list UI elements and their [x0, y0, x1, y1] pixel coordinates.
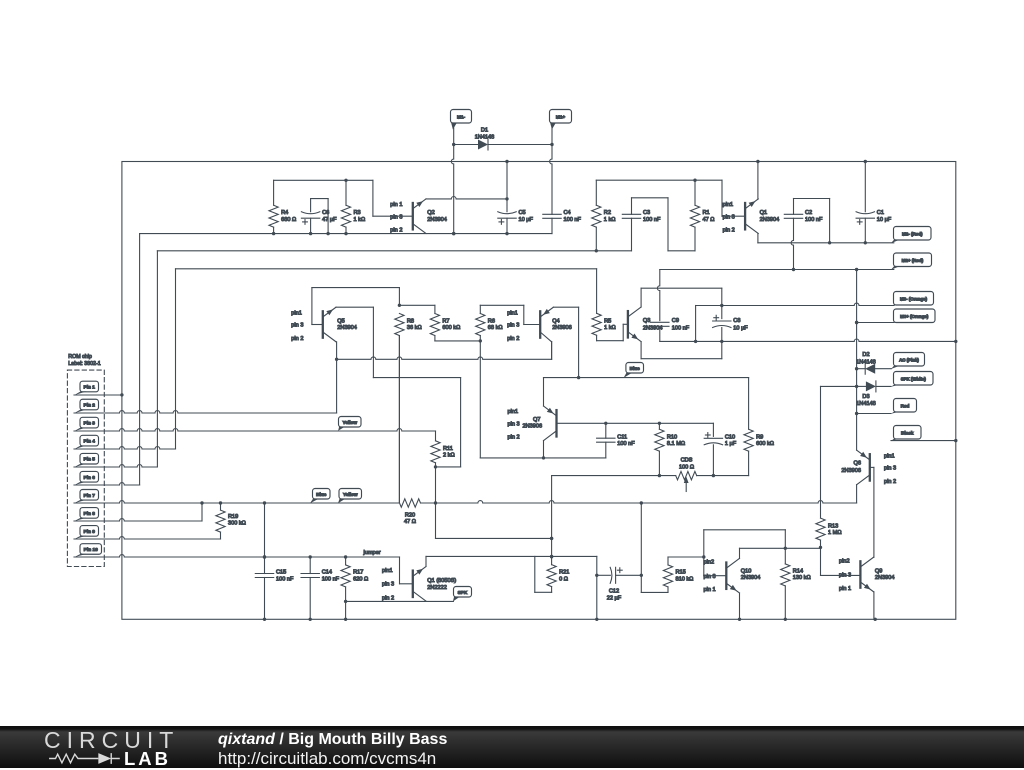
svg-text:SPK: SPK	[458, 590, 468, 595]
resistor R19 300 kohm	[216, 503, 246, 539]
svg-text:Pin 2: Pin 2	[84, 403, 96, 409]
wire Pin 10 jumper row	[74, 555, 400, 557]
capacitor C8 10uF electrolytic	[713, 315, 749, 341]
capacitor C14 100nF	[301, 557, 340, 619]
svg-text:100 nF: 100 nF	[564, 217, 582, 223]
svg-text:D1: D1	[481, 128, 488, 134]
wire Q10 base loop	[703, 530, 705, 576]
terminal flag M3+ (Orange)	[894, 309, 936, 323]
svg-text:R3: R3	[354, 210, 361, 216]
wire long vertical M2+ net down to Q6	[856, 270, 858, 451]
svg-text:600 kΩ: 600 kΩ	[442, 325, 460, 331]
svg-text:M2- (Red): M2- (Red)	[902, 231, 923, 236]
svg-text:pin 3: pin 3	[291, 323, 303, 329]
svg-text:2N3906: 2N3906	[523, 424, 543, 430]
wire Q6 base to Q9 collector	[870, 466, 874, 468]
svg-text:C14: C14	[322, 570, 332, 576]
svg-text:R6: R6	[488, 319, 495, 325]
svg-text:68 kΩ: 68 kΩ	[488, 325, 503, 331]
svg-text:pin 3: pin 3	[382, 582, 394, 588]
svg-text:0 Ω: 0 Ω	[559, 576, 568, 582]
wire bus 3	[175, 269, 177, 449]
svg-text:100 nF: 100 nF	[617, 441, 635, 447]
svg-text:Black: Black	[901, 430, 914, 435]
wire Pin 9 row	[74, 537, 221, 539]
diode D2 1N4148	[856, 352, 891, 374]
wire row 538 to R21	[436, 537, 552, 539]
svg-text:CDS: CDS	[681, 457, 693, 463]
svg-text:Q2: Q2	[427, 210, 434, 216]
svg-text:pin 2: pin 2	[291, 336, 303, 342]
svg-text:R17: R17	[353, 570, 363, 576]
svg-text:130 kΩ: 130 kΩ	[793, 575, 811, 581]
svg-text:C2: C2	[805, 210, 812, 216]
wire Q9 base row	[821, 574, 860, 576]
svg-text:M2+ (Red): M2+ (Red)	[902, 258, 924, 263]
svg-text:pin2: pin2	[704, 560, 715, 566]
svg-text:600 kΩ: 600 kΩ	[756, 441, 774, 447]
svg-text:8.1 MΩ: 8.1 MΩ	[667, 441, 685, 447]
svg-text:R14: R14	[793, 569, 803, 575]
wire M3- row	[696, 303, 894, 305]
transistor Q6 2N3906	[841, 450, 896, 485]
wire Blue row	[544, 377, 749, 379]
photoresistor CDS 100 ohm	[552, 457, 749, 491]
svg-text:R19: R19	[228, 514, 238, 520]
svg-text:10 µF: 10 µF	[519, 217, 534, 223]
logo resistor-diode glyph	[49, 753, 120, 764]
svg-text:Blue: Blue	[316, 492, 327, 497]
svg-text:100 nF: 100 nF	[276, 576, 294, 582]
svg-text:2N3904: 2N3904	[741, 575, 761, 581]
svg-text:C6: C6	[322, 210, 329, 216]
svg-text:C8: C8	[733, 318, 740, 324]
svg-text:Pin 5: Pin 5	[84, 457, 96, 463]
wire Pin 2 row to Q5 emitter	[74, 411, 337, 413]
wire Red row	[857, 413, 891, 415]
svg-text:2 kΩ: 2 kΩ	[443, 453, 455, 459]
wire M2+ row	[660, 269, 894, 271]
resistor R4 680 ohm	[269, 180, 296, 233]
resistor R20 47 ohm in rail	[400, 499, 421, 525]
terminal flag SPK (White)	[894, 372, 934, 386]
terminal flag Yellow (lower)	[339, 489, 362, 500]
svg-text:pin 2: pin 2	[723, 228, 735, 234]
capacitor C2 100nF	[784, 199, 829, 270]
svg-text:10 µF: 10 µF	[877, 217, 892, 223]
terminal flag Pin 8	[80, 508, 99, 519]
wire row Q5-collector to R11 bottom	[373, 377, 460, 379]
svg-text:pin 3: pin 3	[507, 323, 519, 329]
svg-text:Q5: Q5	[337, 319, 344, 325]
ROM chip dashed outline	[67, 370, 104, 566]
transistor Q2 2N3904	[390, 199, 447, 234]
svg-text:pin1: pin1	[291, 310, 302, 316]
svg-text:R8: R8	[407, 319, 414, 325]
svg-text:M1-: M1-	[457, 114, 466, 119]
svg-text:300 kΩ: 300 kΩ	[228, 521, 246, 527]
terminal flag Pin 3	[80, 417, 99, 428]
terminal flag M3- (Orange)	[894, 292, 934, 306]
resistor R15 810 kohm	[641, 555, 705, 592]
terminal flag Pin 2	[80, 399, 99, 410]
wire rail top of R2/R1	[596, 179, 722, 181]
wire Pin 1 row	[74, 394, 122, 396]
svg-text:R5: R5	[604, 319, 611, 325]
terminal flag Pin 7	[80, 490, 99, 501]
resistor R13 1 Mohm	[816, 518, 842, 547]
svg-text:Q1: Q1	[760, 210, 767, 216]
resistor R6 68 kohm	[476, 305, 503, 458]
svg-text:pin 1: pin 1	[704, 587, 716, 593]
svg-text:100 nF: 100 nF	[672, 325, 690, 331]
svg-text:C9: C9	[672, 318, 679, 324]
terminal flag SPK	[454, 587, 472, 598]
wire Q2 emitter rail A	[140, 233, 552, 235]
svg-text:pin 1: pin 1	[390, 202, 402, 208]
svg-text:Q9: Q9	[875, 569, 882, 575]
svg-text:Pin 1: Pin 1	[84, 385, 96, 391]
svg-text:100 Ω: 100 Ω	[679, 464, 694, 470]
capacitor C11 100nF	[597, 423, 636, 458]
svg-text:36 kΩ: 36 kΩ	[407, 325, 422, 331]
diode D3 1N4148	[856, 381, 891, 407]
terminal flag Pin 9	[80, 526, 99, 537]
transistor Q1 2N3904 (top)	[723, 199, 780, 234]
wire rail top of R4/R3	[274, 179, 373, 181]
resistor R17 620 ohm	[341, 557, 368, 619]
wire Q1 base from rail	[721, 180, 723, 216]
wire Pin 8 row	[74, 519, 202, 521]
svg-text:Pin 6: Pin 6	[84, 475, 96, 481]
svg-text:Pin 4: Pin 4	[84, 439, 96, 445]
svg-text:pin 3: pin 3	[704, 574, 716, 580]
wire Pin 7 long rail (left of R20)	[74, 501, 399, 503]
resistor R21 0 ohm	[535, 556, 570, 592]
svg-text:C3: C3	[643, 210, 650, 216]
wire R13 bottom junction	[819, 546, 822, 549]
svg-text:Q7: Q7	[533, 417, 540, 423]
svg-text:R2: R2	[604, 210, 611, 216]
wire rail 341 to right border	[660, 339, 956, 341]
svg-text:R21: R21	[559, 570, 569, 576]
wire Q7 base row	[557, 422, 714, 424]
svg-text:R20: R20	[405, 512, 415, 518]
svg-text:R9: R9	[756, 434, 763, 440]
svg-text:pin1: pin1	[723, 202, 734, 208]
capacitor C1 10uF electrolytic	[856, 162, 892, 243]
svg-text:1N4148: 1N4148	[856, 401, 876, 407]
svg-text:pin 2: pin 2	[390, 228, 402, 234]
svg-text:M1+: M1+	[556, 114, 566, 119]
svg-text:M3- (Orange): M3- (Orange)	[900, 296, 928, 301]
svg-text:pin2: pin2	[839, 558, 850, 564]
wire R6 top row to Q4 base	[480, 304, 524, 306]
resistor R5 1 kohm	[592, 313, 616, 340]
wire Q1 collector row to R21/C12	[426, 555, 597, 557]
svg-text:1 kΩ: 1 kΩ	[354, 217, 366, 223]
svg-text:100 nF: 100 nF	[643, 217, 661, 223]
wire R5 bottom to Q3 base	[597, 340, 624, 342]
wire Q6 emitter to rail503	[856, 485, 858, 503]
resistor R10 8.1 Mohm	[655, 423, 685, 475]
svg-text:10 µF: 10 µF	[733, 325, 748, 331]
capacitor C12 22uF electrolytic	[597, 567, 642, 601]
wire C12/R15 vertical	[640, 503, 642, 592]
svg-text:jumper: jumper	[363, 550, 381, 556]
wire Q9 emitter to bottom border	[873, 592, 875, 620]
terminal flag M1+	[550, 110, 572, 124]
resistor R8 36 kohm	[395, 314, 422, 504]
resistor R9 600 kohm	[744, 378, 774, 476]
wire Q3 collector rail to C8 top	[640, 288, 642, 307]
wire rail B lower (nested rail 2)	[157, 250, 631, 252]
wire Q5 collector over to R11 net	[336, 306, 373, 308]
transistor Q4 2N3906	[507, 307, 572, 342]
svg-text:2N3904: 2N3904	[875, 575, 895, 581]
wire bus 2	[156, 251, 158, 467]
wire Pin 6 row to bus1	[74, 483, 140, 485]
capacitor C10 1uF electrolytic	[704, 423, 737, 475]
terminal flag Pin 5	[80, 453, 99, 464]
svg-text:Red: Red	[901, 403, 910, 408]
wire CDS row down to R21 top	[551, 476, 553, 565]
svg-text:pin 3: pin 3	[884, 466, 896, 472]
wire Q5 base upper rail	[311, 288, 313, 325]
svg-text:Yellow: Yellow	[342, 420, 357, 425]
capacitor C15 100nF	[255, 503, 294, 619]
resistor R7 600 kohm	[430, 305, 460, 341]
svg-text:ROM chip: ROM chip	[68, 354, 92, 360]
capacitor C9 100nF	[651, 270, 690, 342]
svg-text:C10: C10	[725, 434, 735, 440]
svg-text:pin1: pin1	[382, 568, 393, 574]
wire M1- vertical	[451, 128, 453, 234]
svg-text:47 Ω: 47 Ω	[404, 519, 416, 525]
svg-text:Yellow: Yellow	[343, 492, 358, 497]
terminal flag M2- (Red)	[894, 227, 932, 241]
wire Pin 7 long rail (right of R20)	[421, 501, 857, 503]
svg-text:620 Ω: 620 Ω	[353, 576, 368, 582]
capacitor C4 100nF	[543, 210, 582, 233]
svg-text:1 kΩ: 1 kΩ	[604, 325, 616, 331]
svg-text:Label: 3802-1: Label: 3802-1	[68, 361, 100, 367]
svg-text:47 µF: 47 µF	[322, 217, 337, 223]
wire Pin 5 row to bus2	[74, 465, 157, 467]
wire Q5 emitter down to Pin2 row	[336, 342, 338, 413]
resistor R11 2 kohm	[431, 431, 455, 467]
svg-text:Q6: Q6	[854, 461, 861, 467]
capacitor C5 10uF electrolytic	[498, 162, 534, 234]
svg-text:pin1: pin1	[508, 409, 519, 415]
svg-text:810 kΩ: 810 kΩ	[676, 576, 694, 582]
svg-text:Blue: Blue	[630, 366, 641, 371]
transistor Q3 2N3904	[628, 307, 663, 342]
svg-text:AC (Pink): AC (Pink)	[899, 357, 919, 362]
terminal flag Blue (lower)	[313, 489, 331, 500]
transistor Q5 2N3904	[291, 307, 357, 342]
svg-text:680 Ω: 680 Ω	[281, 217, 296, 223]
wire Q1 collector to top border	[757, 162, 759, 200]
svg-text:D3: D3	[862, 394, 869, 400]
svg-text:22 µF: 22 µF	[607, 596, 622, 602]
svg-text:Pin 9: Pin 9	[84, 529, 96, 535]
svg-text:R7: R7	[442, 319, 449, 325]
svg-text:C5: C5	[519, 210, 526, 216]
svg-text:1 MΩ: 1 MΩ	[828, 530, 842, 536]
svg-text:1N4148: 1N4148	[856, 359, 876, 365]
svg-text:Q4: Q4	[552, 319, 559, 325]
svg-text:R1: R1	[703, 210, 710, 216]
terminal flag Pin 1	[80, 381, 99, 392]
svg-text:Q10: Q10	[741, 569, 752, 575]
wire R8/R7 top row	[399, 304, 435, 306]
svg-text:C1: C1	[877, 210, 884, 216]
junction dots on borders	[505, 160, 508, 163]
wire Q1 emitter rail to M2- flag	[757, 234, 759, 243]
svg-text:Pin 10: Pin 10	[84, 547, 98, 553]
resistor R1 47 ohm	[690, 180, 714, 251]
svg-text:100 nF: 100 nF	[805, 217, 823, 223]
wire R8 vertical down to R20	[398, 336, 400, 504]
svg-text:pin 2: pin 2	[382, 595, 394, 601]
wire Pin 4 row to bus3	[74, 447, 176, 449]
svg-text:pin1: pin1	[884, 453, 895, 459]
svg-text:1 kΩ: 1 kΩ	[604, 217, 616, 223]
svg-text:pin 3: pin 3	[723, 214, 735, 220]
svg-text:100 nF: 100 nF	[322, 576, 340, 582]
svg-text:C11: C11	[617, 434, 627, 440]
svg-text:R4: R4	[281, 210, 288, 216]
wire M1+ vertical to C4	[550, 128, 552, 214]
svg-text:2N3904: 2N3904	[760, 217, 780, 223]
terminal flag Pin 10	[80, 544, 102, 555]
wire Q10 collector row to R13 bottom	[739, 548, 741, 558]
terminal flag Red	[894, 399, 917, 413]
wire rail row2 emitters	[337, 357, 552, 359]
terminal flag Blue (upper)	[626, 363, 644, 374]
svg-text:SPK (White): SPK (White)	[901, 376, 927, 381]
footer bar	[0, 726, 1024, 768]
terminal flag Pin 4	[80, 435, 99, 446]
svg-text:R15: R15	[676, 570, 686, 576]
transistor Q1 (8050S) 2N2222	[382, 567, 456, 602]
wire R11 bottom vertical to row 538	[435, 467, 437, 539]
svg-text:D2: D2	[862, 352, 869, 358]
svg-text:2N3904: 2N3904	[337, 325, 357, 331]
wire SPK net to R13	[821, 385, 857, 387]
svg-text:pin 3: pin 3	[508, 422, 520, 428]
wire bus 1	[139, 234, 141, 485]
svg-text:R13: R13	[828, 523, 838, 529]
outer box border (big loop wire)	[122, 162, 956, 620]
svg-text:1N4148: 1N4148	[475, 135, 495, 141]
wire C12 left vertical	[596, 556, 598, 619]
svg-text:2N3906: 2N3906	[552, 325, 572, 331]
transistor Q7 2N3906	[508, 378, 557, 441]
terminal flag AC (Pink)	[894, 353, 925, 367]
svg-text:M3+ (Orange): M3+ (Orange)	[900, 314, 929, 319]
svg-text:2N3904: 2N3904	[427, 217, 447, 223]
wire Q2 base from rail	[372, 180, 374, 216]
terminal flag Black	[894, 426, 922, 440]
svg-text:2N3906: 2N3906	[841, 468, 861, 474]
wire M3+ row	[857, 322, 894, 324]
wire Q1 collector to row	[425, 556, 427, 566]
svg-text:pin 1: pin 1	[839, 586, 851, 592]
wire R7-R6 bottom row	[435, 340, 480, 342]
svg-text:Pin 7: Pin 7	[84, 493, 96, 499]
svg-text:Q1 (8050S): Q1 (8050S)	[427, 578, 456, 584]
diode D1 1N4148	[454, 128, 552, 151]
wire Q7 emitter row	[543, 441, 545, 458]
svg-text:C12: C12	[609, 588, 619, 594]
resistor R3 1 kohm	[341, 180, 365, 233]
svg-text:pin 2: pin 2	[884, 479, 896, 485]
terminal flag Pin 6	[80, 471, 99, 482]
transistor Q9 2N3904	[839, 557, 895, 592]
svg-text:Q3: Q3	[643, 318, 650, 324]
svg-text:pin 3: pin 3	[390, 214, 402, 220]
svg-text:Pin 3: Pin 3	[84, 421, 96, 427]
wire Pin 3 row to R11	[74, 429, 436, 431]
transistor Q10 2N3904	[704, 558, 761, 593]
resistor R14 130 kohm	[781, 564, 811, 619]
wire Q2 collector rail to C5	[426, 196, 507, 198]
wire rail C (nested rail 3) to R5 top	[176, 268, 597, 270]
svg-text:Pin 8: Pin 8	[84, 511, 96, 517]
wire Q10 emitter to border	[739, 593, 741, 619]
wire Q5 base loop	[312, 324, 322, 326]
wire Black row to right border	[891, 440, 956, 442]
svg-text:pin1: pin1	[507, 310, 518, 316]
svg-text:R11: R11	[443, 446, 453, 452]
svg-text:1 µF: 1 µF	[725, 441, 737, 447]
terminal flag M1-	[451, 110, 472, 124]
CircuitLab logo	[44, 727, 179, 754]
svg-text:pin 2: pin 2	[508, 435, 520, 441]
svg-text:pin 3: pin 3	[839, 573, 851, 579]
wire jumper row down to Q1 base	[399, 557, 401, 584]
resistor R2 1 kohm	[592, 180, 616, 251]
terminal flag Yellow (mid)	[339, 417, 362, 428]
svg-text:C15: C15	[276, 570, 286, 576]
capacitor C6 47uF electrolytic	[301, 199, 337, 234]
capacitor C3 100nF	[622, 198, 668, 251]
wire Q4 collector to Blue net	[553, 306, 578, 308]
svg-text:pin 2: pin 2	[507, 336, 519, 342]
wire Q3 emitter loop	[640, 342, 642, 359]
svg-text:2N2222: 2N2222	[427, 585, 447, 591]
wire Q1 emitter row	[346, 600, 454, 602]
svg-text:R10: R10	[667, 434, 677, 440]
svg-text:C4: C4	[564, 210, 571, 216]
wire Q4 emitter to rail	[551, 342, 553, 360]
svg-text:47 Ω: 47 Ω	[703, 217, 715, 223]
terminal flag M2+ (Red)	[894, 253, 932, 267]
